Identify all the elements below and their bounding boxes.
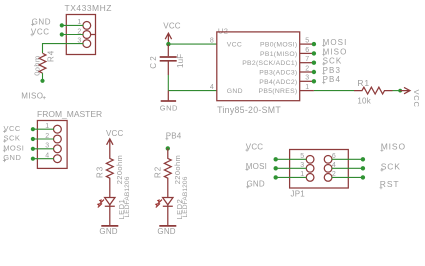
junction <box>31 157 35 161</box>
capacitor C2 <box>160 57 177 61</box>
pin 6 stub <box>300 52 314 54</box>
svg-text:GND: GND <box>160 104 178 113</box>
svg-text:VCC: VCC <box>412 90 421 108</box>
svg-text:220ohm: 220ohm <box>173 155 182 185</box>
svg-text:LEDFAB1206: LEDFAB1206 <box>182 176 189 217</box>
connector TX433MHZ pin circle 1 <box>83 22 91 30</box>
junction <box>361 157 365 161</box>
wire VCC node to C2 <box>167 44 169 56</box>
junction <box>274 166 278 170</box>
junction PB4 <box>166 146 170 150</box>
svg-text:LEDFAB1206: LEDFAB1206 <box>124 176 131 217</box>
svg-text:MOSI: MOSI <box>3 143 24 152</box>
wire MOSI to FM pin 3 <box>33 148 54 150</box>
svg-text:10k: 10k <box>357 97 371 106</box>
svg-text:VCC: VCC <box>163 21 181 30</box>
junction <box>274 175 278 179</box>
pin 2 stub <box>300 71 314 73</box>
wire GND to FM pin 4 <box>33 158 54 160</box>
svg-text:GND: GND <box>32 18 52 27</box>
ground symbol below LED2 <box>159 225 176 227</box>
svg-text:PB4(ADC2): PB4(ADC2) <box>259 79 297 86</box>
svg-text:SCK: SCK <box>381 161 401 171</box>
svg-text:TX433MHZ: TX433MHZ <box>65 3 112 13</box>
LED LED2 <box>163 198 173 207</box>
resistor R2 <box>164 148 171 184</box>
svg-text:R3: R3 <box>95 166 104 178</box>
wire VCC to JP1 pin 5 <box>276 158 307 160</box>
wire C2 to GND <box>167 62 169 76</box>
svg-text:PB3(ADC3): PB3(ADC3) <box>259 70 297 77</box>
connector TX433MHZ body <box>66 15 95 55</box>
connector JP1 body <box>290 150 349 189</box>
wire VCC node to U2 pin 8 <box>168 43 216 45</box>
ground symbol below C2 <box>167 91 169 101</box>
svg-text:RST: RST <box>380 179 400 189</box>
svg-text:C2: C2 <box>149 54 158 69</box>
LED LED1 <box>105 198 115 207</box>
svg-text:GND: GND <box>227 88 243 95</box>
svg-text:GND: GND <box>157 227 175 236</box>
wire LED1 to GND <box>109 205 111 226</box>
svg-text:U2: U2 <box>218 27 229 36</box>
svg-text:GND: GND <box>3 153 21 162</box>
pin 5 stub <box>300 43 314 45</box>
svg-text:MISO: MISO <box>323 47 348 56</box>
svg-text:R2: R2 <box>153 166 162 178</box>
junction <box>361 166 365 170</box>
junction pin 6 <box>312 51 316 55</box>
svg-text:VCC: VCC <box>227 42 242 49</box>
wire LED2 to GND <box>167 205 169 226</box>
junction <box>31 127 35 131</box>
pin 7 stub <box>300 62 314 64</box>
FROM_MASTER pin circle 2 <box>54 135 62 143</box>
wire VCC to FM pin 1 <box>33 128 54 130</box>
wire GND to TX pin 1 <box>62 24 84 26</box>
svg-text:1uF: 1uF <box>176 54 185 68</box>
junction <box>31 147 35 151</box>
JP1 pin circle 3 <box>306 164 314 172</box>
svg-text:MOSI: MOSI <box>323 38 348 47</box>
resistor R1 <box>354 87 393 94</box>
svg-text:Tiny85-20-SMT: Tiny85-20-SMT <box>217 105 281 115</box>
JP1 pin circle 4 <box>324 164 332 172</box>
wire MOSI to JP1 pin 3 <box>276 167 307 169</box>
svg-text:7: 7 <box>305 56 309 63</box>
junction pin 3 <box>312 79 316 83</box>
junction VCC node <box>166 42 170 46</box>
svg-text:MOSI: MOSI <box>246 162 267 171</box>
tick on TX pin 2 <box>91 34 96 36</box>
FROM_MASTER pin circle 3 <box>54 145 62 153</box>
junction <box>31 137 35 141</box>
svg-text:VCC: VCC <box>31 28 50 37</box>
svg-text:6: 6 <box>305 47 309 54</box>
svg-text:PB1(MISO): PB1(MISO) <box>260 51 297 58</box>
svg-text:2: 2 <box>305 65 309 72</box>
JP1 pin circle 2 <box>324 174 332 182</box>
svg-text:PB0(MOSI): PB0(MOSI) <box>260 42 297 49</box>
junction <box>361 175 365 179</box>
svg-text:1: 1 <box>305 84 309 91</box>
svg-text:JP1: JP1 <box>291 190 306 199</box>
JP1 pin circle 5 <box>306 155 314 163</box>
junction on GND wire <box>60 23 64 27</box>
FROM_MASTER pin circle 4 <box>54 155 62 163</box>
junction pin 5 <box>312 42 316 46</box>
svg-text:8: 8 <box>210 38 214 45</box>
IC U2 body <box>217 32 300 101</box>
FROM_MASTER pin circle 1 <box>54 125 62 133</box>
svg-text:MISO: MISO <box>21 92 43 101</box>
resistor R3 <box>106 149 113 185</box>
svg-text:220ohm: 220ohm <box>115 155 124 185</box>
svg-text:PB3: PB3 <box>323 66 341 75</box>
connector TX433MHZ pin circle 3 <box>83 40 91 48</box>
wire R3 to LED1 <box>109 184 111 197</box>
svg-text:R4: R4 <box>47 50 56 62</box>
wire R1 to VCC <box>393 90 401 92</box>
svg-text:SCK: SCK <box>323 57 343 66</box>
junction pin 2 <box>312 70 316 74</box>
svg-text:PB5(NRES): PB5(NRES) <box>259 88 298 95</box>
svg-text:FROM_MASTER: FROM_MASTER <box>37 109 102 119</box>
junction pin 7 <box>312 61 316 65</box>
wire TX pin 3 to R4 <box>43 44 84 53</box>
resistor R4 <box>39 53 46 73</box>
wire SCK to FM pin 2 <box>33 138 54 140</box>
svg-text:4: 4 <box>210 84 214 91</box>
wire JP1 pin 2 to RST <box>332 176 363 178</box>
wire GND to JP1 pin 1 <box>276 176 307 178</box>
junction on VCC wire <box>60 32 64 36</box>
junction at VCC symbol <box>398 89 402 93</box>
ground symbol below LED1 <box>101 225 118 227</box>
svg-text:PB4: PB4 <box>323 75 341 84</box>
wire JP1 pin 4 to SCK <box>332 167 363 169</box>
svg-text:5: 5 <box>305 38 309 45</box>
JP1 pin circle 1 <box>306 174 314 182</box>
supply VCC symbol right <box>400 87 410 93</box>
svg-text:PB2(SCK/ADC1): PB2(SCK/ADC1) <box>242 60 297 67</box>
svg-text:3: 3 <box>305 75 309 82</box>
connector TX433MHZ pin circle 2 <box>83 31 91 39</box>
svg-text:VCC: VCC <box>106 129 124 138</box>
connector FROM_MASTER body <box>37 121 67 169</box>
wire R4 to MISO <box>42 73 44 81</box>
svg-text:GND: GND <box>247 180 265 189</box>
svg-text:GND: GND <box>99 227 117 236</box>
junction <box>274 157 278 161</box>
pin 3 stub <box>300 80 314 82</box>
wire JP1 pin 6 to MISO <box>332 158 363 160</box>
wire R2 to LED2 <box>167 184 169 197</box>
svg-text:MISO: MISO <box>381 142 406 152</box>
svg-text:0ohm: 0ohm <box>32 55 41 75</box>
JP1 pin circle 6 <box>324 155 332 163</box>
svg-text:R1: R1 <box>357 78 370 88</box>
pin 1 stub <box>300 90 314 92</box>
wire U2 pin 1 to R1 <box>314 90 354 92</box>
wire VCC to TX pin 2 <box>62 34 84 36</box>
wire GND branch to U2 pin 4 <box>168 90 217 92</box>
junction at MISO label <box>40 79 44 83</box>
